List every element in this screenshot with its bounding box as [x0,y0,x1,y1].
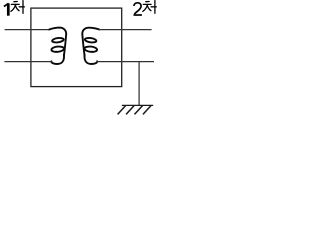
label 2차 (secondary) : digit 2 [134,3,142,15]
primary winding L1 [49,28,66,64]
ground [118,105,154,114]
secondary bottom terminal wire [97,61,155,63]
secondary winding L2 [82,28,99,64]
primary bottom terminal wire [4,61,52,63]
transformer enclosure box [31,8,122,87]
label 1차 (primary) : digit 1 [4,3,9,15]
primary top terminal wire [5,29,50,31]
ground wire (drop from secondary bottom terminal) [138,62,140,106]
label 2차 (secondary) : hangul 차 strokes [143,1,157,14]
label 1차 (primary) : hangul 차 strokes [11,1,25,14]
secondary top terminal wire [99,29,152,31]
